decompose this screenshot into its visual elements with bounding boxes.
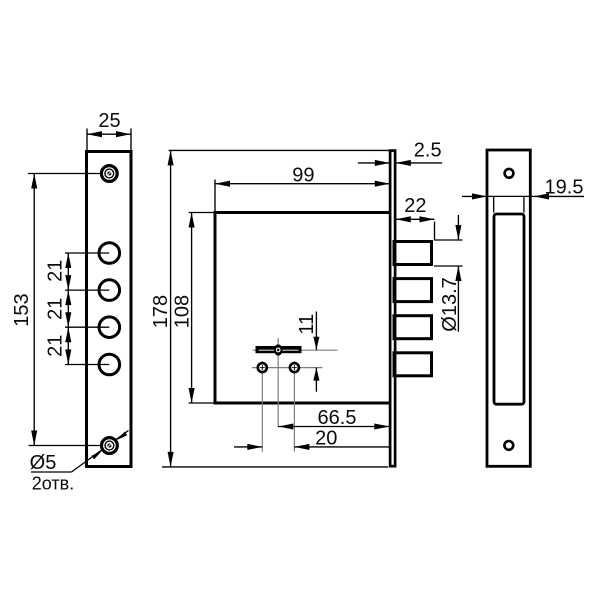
- svg-text:25: 25: [98, 110, 120, 132]
- dimension 19.5: [462, 177, 584, 213]
- screw B centerline vertical: [293, 361, 295, 452]
- dimension O13.7: [434, 215, 463, 332]
- right view: strike plate outline: [487, 150, 530, 466]
- top screw centerline: [28, 173, 101, 175]
- bolt 2: [394, 279, 432, 302]
- hole 3 centerline: [65, 326, 109, 328]
- dimension 108: [171, 213, 215, 404]
- screw hole A: [258, 363, 267, 372]
- svg-text:21: 21: [45, 260, 67, 282]
- hole 4: [99, 354, 120, 375]
- svg-text:19.5: 19.5: [545, 177, 584, 199]
- bolt 4: [394, 353, 432, 376]
- bottom screw centerline: [29, 445, 101, 447]
- strike top screw: [505, 169, 514, 178]
- svg-text:21: 21: [45, 335, 67, 357]
- dimension 20: [234, 428, 390, 450]
- svg-text:2.5: 2.5: [414, 140, 442, 162]
- screw A centerline vertical: [261, 361, 263, 452]
- top screw: [101, 166, 117, 182]
- spindle centerline vertical: [277, 338, 279, 428]
- svg-text:22: 22: [404, 195, 426, 217]
- spindle bar: [256, 346, 302, 353]
- dimension 25: [87, 110, 131, 152]
- bottom screw: [102, 438, 118, 454]
- svg-text:153: 153: [11, 293, 33, 326]
- dimension 153: [11, 174, 37, 446]
- dimension 21 chain: [45, 253, 72, 365]
- hole 1 centerline: [65, 252, 109, 254]
- lock body: [215, 213, 390, 404]
- hole 2: [99, 280, 120, 301]
- left view: faceplate front outline: [87, 152, 132, 467]
- spindle boss: [274, 344, 282, 355]
- spindle centerline horizontal: [253, 349, 338, 351]
- svg-text:11: 11: [296, 314, 318, 335]
- svg-text:2отв.: 2отв.: [32, 474, 74, 494]
- leader arrowheads: [92, 451, 102, 459]
- screw hole B: [290, 363, 299, 372]
- strike bottom screw: [504, 441, 513, 450]
- svg-text:Ø5: Ø5: [30, 452, 57, 474]
- dimension 99: [215, 165, 390, 213]
- svg-text:21: 21: [45, 298, 67, 320]
- dimension 178: [150, 150, 390, 467]
- label O5 2otv: [30, 452, 75, 494]
- dimension 22: [396, 195, 435, 240]
- dimension 66.5: [278, 407, 389, 430]
- strike slot: [494, 214, 524, 404]
- svg-text:108: 108: [171, 295, 193, 328]
- bolt 1: [394, 242, 432, 265]
- dimension 11: [296, 312, 319, 392]
- svg-text:178: 178: [150, 295, 172, 328]
- bolt 3: [394, 316, 432, 339]
- leader line O5: [72, 431, 129, 473]
- hole 4 centerline: [65, 364, 109, 366]
- svg-text:66.5: 66.5: [318, 407, 357, 429]
- middle view: strip (faceplate edge): [390, 151, 395, 467]
- svg-text:20: 20: [315, 428, 337, 450]
- dimension 2.5: [358, 140, 442, 166]
- hole 3: [99, 317, 120, 338]
- hole 2 centerline: [65, 289, 109, 291]
- hole 1: [99, 243, 120, 264]
- svg-text:99: 99: [292, 165, 314, 187]
- screws centerline horizontal: [252, 367, 323, 369]
- svg-text:Ø13.7: Ø13.7: [439, 277, 461, 331]
